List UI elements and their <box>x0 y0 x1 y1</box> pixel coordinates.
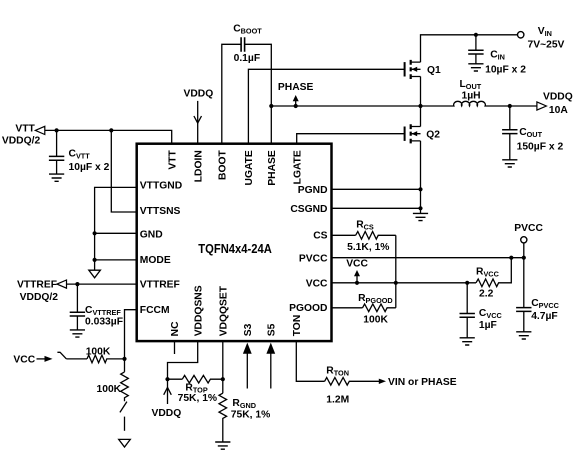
svg-text:Q1: Q1 <box>427 65 441 76</box>
svg-text:VDDQ: VDDQ <box>184 89 214 100</box>
svg-text:0.1µF: 0.1µF <box>234 53 261 64</box>
svg-text:10µF x 2: 10µF x 2 <box>69 162 110 173</box>
svg-text:10µF x 2: 10µF x 2 <box>485 64 526 75</box>
svg-text:4.7µF: 4.7µF <box>531 311 558 322</box>
svg-text:100K: 100K <box>86 347 111 358</box>
svg-text:1µF: 1µF <box>479 320 497 331</box>
svg-text:CS: CS <box>313 230 327 241</box>
svg-text:2.2: 2.2 <box>479 288 494 299</box>
svg-text:VTT: VTT <box>15 123 35 134</box>
svg-text:1.2M: 1.2M <box>326 395 349 406</box>
svg-text:VCC: VCC <box>13 354 35 365</box>
svg-text:VTTSNS: VTTSNS <box>140 206 181 217</box>
svg-text:TQFN4x4-24A: TQFN4x4-24A <box>198 242 271 256</box>
svg-text:FCCM: FCCM <box>140 305 170 316</box>
svg-text:VDDQSNS: VDDQSNS <box>193 285 204 336</box>
svg-text:150µF x 2: 150µF x 2 <box>517 142 564 153</box>
svg-text:VDQQSET: VDQQSET <box>219 285 230 336</box>
svg-text:PGOOD: PGOOD <box>289 303 327 314</box>
svg-text:1µH: 1µH <box>462 90 481 101</box>
svg-text:75K, 1%: 75K, 1% <box>231 410 270 421</box>
svg-text:VTTGND: VTTGND <box>140 181 182 192</box>
svg-text:75K, 1%: 75K, 1% <box>178 393 218 404</box>
svg-text:VDDQ/2: VDDQ/2 <box>2 136 41 147</box>
svg-text:S3: S3 <box>243 323 254 336</box>
svg-text:100K: 100K <box>97 384 122 395</box>
svg-text:5.1K, 1%: 5.1K, 1% <box>347 242 389 253</box>
svg-text:CSGND: CSGND <box>290 204 327 215</box>
svg-text:S5: S5 <box>267 323 278 336</box>
svg-text:MODE: MODE <box>140 255 171 266</box>
svg-text:NC: NC <box>170 321 181 336</box>
svg-text:PVCC: PVCC <box>514 223 543 234</box>
svg-text:BOOT: BOOT <box>218 149 229 179</box>
svg-text:GND: GND <box>140 229 163 240</box>
svg-text:VDDQ: VDDQ <box>543 92 573 103</box>
svg-text:PHASE: PHASE <box>267 150 278 186</box>
svg-text:100K: 100K <box>363 315 388 326</box>
svg-text:VDDQ/2: VDDQ/2 <box>20 292 59 303</box>
svg-text:VTTREF: VTTREF <box>17 279 57 290</box>
svg-text:UGATE: UGATE <box>244 150 255 185</box>
svg-text:10A: 10A <box>549 105 568 116</box>
svg-text:VTTREF: VTTREF <box>140 280 180 291</box>
svg-text:0.033µF: 0.033µF <box>85 317 123 328</box>
svg-text:PHASE: PHASE <box>278 82 314 93</box>
svg-text:7V~25V: 7V~25V <box>528 40 565 51</box>
svg-text:VCC: VCC <box>306 278 328 289</box>
svg-text:LDOIN: LDOIN <box>193 150 204 182</box>
svg-text:LGATE: LGATE <box>292 150 303 184</box>
svg-text:TON: TON <box>292 315 303 337</box>
svg-text:VTT: VTT <box>167 149 178 169</box>
svg-text:PGND: PGND <box>298 185 328 196</box>
svg-text:VIN or PHASE: VIN or PHASE <box>388 377 457 388</box>
svg-text:VCC: VCC <box>346 258 368 269</box>
svg-text:VDDQ: VDDQ <box>152 408 182 419</box>
svg-text:Q2: Q2 <box>426 130 440 141</box>
svg-text:PVCC: PVCC <box>299 253 328 264</box>
